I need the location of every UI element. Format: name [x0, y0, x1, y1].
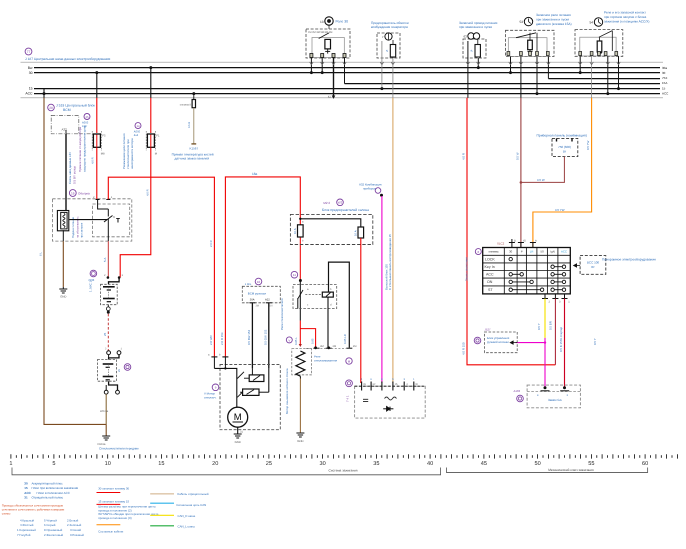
svg-text:0.5 BR: 0.5 BR: [549, 321, 553, 330]
svg-text:2M: 2M: [333, 345, 337, 348]
svg-text:25: 25: [85, 115, 89, 119]
topboxes: [43, 11, 650, 99]
svg-text:P: P: [521, 250, 523, 254]
wire R5 pin2 down: [591, 56, 593, 98]
svg-text:Связь шин данных LIN: Связь шин данных LIN: [68, 152, 72, 184]
wire F2 pin2 down: [392, 58, 394, 98]
coil rect 2: [243, 389, 259, 395]
node bus right labels: [662, 66, 669, 96]
svg-text:F1: F1: [156, 135, 160, 138]
wire bus L3 (75X): [548, 78, 660, 80]
wire bus L4 (15A): [345, 83, 661, 85]
relay J681 box: [506, 13, 572, 57]
wiper connector pins lower: [109, 381, 118, 390]
busbars: [21, 62, 664, 98]
T switch box: [93, 204, 130, 237]
svg-text:30: 30: [24, 482, 28, 486]
leftsection: [39, 68, 215, 451]
wire washer to ground brown: [299, 379, 301, 434]
svg-text:SLC2: SLC2: [497, 242, 505, 246]
wire frame top grey: [21, 61, 664, 63]
svg-text:0.85 L: 0.85 L: [294, 337, 298, 345]
BCM steering box: [242, 286, 280, 303]
legend sample red line 2: [97, 503, 121, 505]
J527 box: [484, 332, 517, 353]
svg-text:Key In: Key In: [485, 265, 495, 269]
svg-text:ACC: ACC: [25, 92, 33, 96]
wire bus L1 (30a): [34, 67, 660, 69]
svg-text:1 Коричневый: 1 Коричневый: [17, 528, 36, 532]
pins entering box: [96, 199, 100, 201]
svg-text:9 Розовый: 9 Розовый: [70, 533, 84, 537]
svg-text:5 Чёрный: 5 Чёрный: [44, 518, 57, 522]
svg-text:35: 35: [373, 461, 379, 467]
fuse 10A right: [358, 227, 364, 238]
svg-text:Механический ключ зажигания: Механический ключ зажигания: [548, 468, 594, 472]
pin row above pump: [314, 347, 353, 349]
fuse SB63 box: [459, 21, 498, 58]
wires BCM to motor: [251, 303, 253, 369]
svg-text:стеклоомывателя: стеклоомывателя: [314, 358, 337, 362]
wire red F1 feed: [96, 73, 98, 98]
svg-text:датчика замка панелей: датчика замка панелей: [175, 156, 210, 160]
wire red below F2 jog left: [120, 147, 151, 277]
node wiper conn ref: [124, 364, 131, 371]
svg-text:CAN_L шина: CAN_L шина: [178, 524, 196, 528]
svg-text:4x4: 4x4: [134, 134, 139, 137]
svg-text:5 A: 5 A: [103, 258, 107, 262]
svg-text:0.85 LR: 0.85 LR: [343, 334, 347, 344]
wire red 18a loop: [225, 177, 300, 357]
svg-text:30: 30: [29, 71, 33, 75]
svg-text:двигателя (клемма 15А): двигателя (клемма 15А): [536, 22, 572, 26]
svg-text:LR: LR: [530, 250, 534, 254]
wire tan long: [392, 98, 394, 383]
wire R5 pin3 to L6: [607, 56, 609, 93]
svg-text:54: 54: [589, 21, 593, 25]
legend sample red line 1: [97, 492, 121, 494]
svg-text:K1567: K1567: [189, 146, 198, 150]
relay wiper box: [293, 285, 337, 309]
relay contact diagonal: [298, 290, 303, 299]
svg-text:40: 40: [427, 461, 433, 467]
wire BCM output black: [65, 134, 67, 211]
svg-text:T: T: [116, 218, 120, 225]
svg-text:при запуске: при запуске: [80, 222, 84, 238]
wire heater ground: [62, 230, 64, 241]
connector battery symbol box: [101, 284, 118, 304]
svg-text:1N: 1N: [269, 305, 272, 308]
wire R1 pin3 down: [333, 58, 335, 97]
svg-text:Составные кабели: Составные кабели: [98, 530, 123, 534]
bracket ignition system: [12, 468, 441, 475]
generator internal symbols: [363, 399, 368, 401]
svg-text:45: 45: [481, 461, 487, 467]
pins above table: [509, 239, 536, 248]
svg-text:15A: 15A: [662, 81, 667, 85]
svg-text:20: 20: [212, 461, 218, 467]
svg-text:Замок зажигания: Замок зажигания: [465, 257, 469, 281]
wire F3 pin to L1: [477, 58, 479, 68]
node ignition ref: [475, 249, 481, 255]
svg-text:6 L: 6 L: [39, 252, 43, 256]
node ref circle: [69, 190, 76, 197]
contact arms: [237, 372, 244, 379]
svg-text:Bw: Bw: [28, 66, 33, 70]
legend: [2, 482, 209, 538]
header: [25, 48, 111, 61]
ignition lock box: [527, 385, 580, 408]
pins: [310, 54, 346, 58]
wire magenta to lock: [544, 338, 546, 388]
svg-text:53: 53: [519, 20, 523, 24]
svg-text:0.5 Y: 0.5 Y: [537, 323, 541, 330]
wire brown left E1: [43, 89, 45, 98]
wire red bold to lock: [564, 299, 566, 388]
node compressor ref: [90, 270, 97, 277]
node generator refs: [346, 358, 352, 364]
svg-text:Реле и его запасной контакт: Реле и его запасной контакт: [604, 11, 646, 15]
svg-text:сечением и сочетанием с ра: сечением и сочетанием с рабочими номерам…: [2, 508, 65, 512]
svg-text:0.5 W: 0.5 W: [515, 152, 519, 160]
wire bus L5 (15): [34, 88, 660, 90]
svg-text:A22: A22: [265, 298, 270, 301]
relay J680 box: [306, 17, 350, 58]
motor ground: [237, 427, 239, 434]
legend sample orange line: [97, 524, 121, 526]
svg-text:зажигания (к позициям ACC/X): зажигания (к позициям ACC/X): [604, 20, 649, 24]
zigzag washer coil: [292, 349, 312, 375]
svg-text:0.5 BY мотор: 0.5 BY мотор: [72, 166, 76, 184]
fuse 10A left: [298, 225, 304, 237]
svg-text:при зажигании и пуске: при зажигании и пуске: [536, 18, 569, 22]
wiper connector pins upper: [107, 351, 111, 355]
svg-text:BCC 100: BCC 100: [587, 261, 600, 265]
svg-text:И131а: И131а: [98, 443, 106, 446]
svg-text:рулевой колонки: рулевой колонки: [487, 340, 509, 344]
fuse F1: [93, 134, 100, 147]
svg-text:13: 13: [320, 20, 324, 24]
svg-text:GND: GND: [297, 439, 303, 443]
generator pins: [362, 382, 414, 391]
svg-text:IG: IG: [523, 240, 526, 243]
svg-text:V: V: [288, 338, 290, 342]
svg-text:J 519 Центральный блок: J 519 Центральный блок: [56, 104, 95, 108]
connector pair top pins: [107, 276, 110, 279]
svg-text:0.5 YW: 0.5 YW: [586, 140, 590, 150]
svg-text:Отрицательный полюс: Отрицательный полюс: [32, 496, 64, 500]
wire darkred to table: [520, 98, 522, 248]
svg-text:^: ^: [113, 215, 115, 220]
svg-text:2.0 R 154: 2.0 R 154: [220, 332, 224, 345]
row labels: [485, 257, 496, 292]
svg-text:провода в положение (9): провода в положение (9): [98, 516, 131, 520]
svg-text:7 Голубой: 7 Голубой: [17, 533, 31, 537]
svg-text:15: 15: [158, 461, 164, 467]
relay J682 box: [575, 11, 649, 57]
fuse SB24 box: [371, 21, 409, 58]
svg-text:0.5 GW 152: 0.5 GW 152: [263, 329, 267, 345]
svg-text:возбуждения генератора: возбуждения генератора: [371, 25, 408, 29]
motor interior: [214, 368, 236, 407]
svg-text:0.5 W: 0.5 W: [537, 178, 545, 182]
svg-text:60: 60: [642, 461, 648, 467]
svg-text:ACC: ACC: [24, 491, 31, 495]
wire red F2 feed: [150, 68, 152, 98]
wire magenta horizontal from J527: [516, 342, 545, 344]
svg-text:ST: ST: [488, 288, 493, 292]
svg-text:15: 15: [662, 86, 666, 90]
svg-text:4.0 R: 4.0 R: [91, 157, 95, 164]
svg-text:ATF1a: ATF1a: [100, 409, 109, 413]
wire red ignition feed: [467, 98, 555, 365]
svg-text:GND: GND: [60, 295, 66, 299]
ruler: [9, 454, 677, 475]
T switch contact: [104, 216, 113, 223]
wire F3 pin2 down: [467, 41, 469, 98]
svg-text:Аккумуляторный плюс: Аккумуляторный плюс: [32, 482, 64, 486]
svg-text:4.0 R: 4.0 R: [146, 189, 150, 196]
wire R5 pin1 to L2: [579, 56, 581, 72]
wire red through fuse to relay: [299, 225, 301, 237]
centersection: [204, 98, 425, 444]
svg-text:Блок предохранителей салона: Блок предохранителей салона: [322, 208, 369, 212]
svg-text:Плюс в положении ACC: Плюс в положении ACC: [37, 491, 71, 495]
svg-text:30a: 30a: [662, 66, 667, 70]
node junction dots on bus: [310, 71, 313, 74]
wire R4 pin3 to L6: [536, 57, 538, 94]
node fuse1 ref: [84, 114, 90, 120]
wire black in fusebox: [300, 219, 361, 227]
svg-text:20: 20: [49, 106, 53, 110]
svg-text:10: 10: [257, 280, 261, 284]
svg-text:0.5 BW 153: 0.5 BW 153: [247, 330, 251, 345]
wire R1 pin4 to L4 start: [344, 58, 346, 84]
wire red dashed down: [107, 314, 109, 351]
svg-text:1: 1: [9, 461, 12, 467]
node M ref magenta: [375, 188, 381, 194]
svg-text:стеклооч.: стеклооч.: [204, 395, 217, 399]
svg-text:ON: ON: [487, 280, 493, 284]
svg-text:8 Оранжевый: 8 Оранжевый: [44, 528, 63, 532]
svg-text:0.5 YW: 0.5 YW: [555, 208, 565, 212]
ignition switch table: [465, 239, 571, 304]
BCC box: [580, 256, 606, 275]
pins below table: [542, 294, 568, 299]
wire magenta: [381, 196, 383, 383]
wire R4 pin2 down: [520, 57, 522, 98]
wire R5 pin4 to L5: [618, 56, 620, 88]
rightsection: [462, 98, 657, 408]
fuse F2: [147, 134, 154, 147]
wire top chevron arrows: [310, 62, 621, 65]
svg-text:Кабель отрицательный: Кабель отрицательный: [178, 492, 209, 496]
relay coil rect: [322, 292, 333, 297]
svg-text:Обогрев: Обогрев: [78, 192, 90, 196]
svg-text:0.5 Y: 0.5 Y: [593, 338, 597, 345]
svg-text:B: B: [514, 240, 516, 243]
svg-text:30: 30: [319, 461, 325, 467]
svg-text:30: 30: [509, 250, 513, 254]
wire red T out down: [107, 241, 109, 277]
relay contact: [319, 33, 329, 39]
svg-text:C 2 Большая панель воспроизвед: C 2 Большая панель воспроизведения 25: [388, 234, 392, 290]
svg-text:Реле 30: Реле 30: [336, 20, 349, 24]
wire down to ground: [105, 394, 107, 424]
svg-text:2 Зелёный: 2 Зелёный: [67, 523, 82, 527]
wiper connector box: [98, 360, 117, 382]
svg-text:3M: 3M: [320, 345, 324, 348]
legend note orange: [2, 504, 65, 516]
svg-text:31: 31: [24, 496, 28, 500]
svg-text:10 A: 10 A: [293, 228, 297, 234]
svg-text:Плюс при включенном зажигании: Плюс при включенном зажигании: [32, 486, 79, 490]
relay inner frame: [312, 38, 344, 58]
svg-text:F5: F5: [102, 135, 106, 138]
wire R4 pin4 to L3 start: [547, 57, 549, 79]
legend middle column: [98, 487, 159, 534]
svg-text:750 (600): 750 (600): [558, 145, 571, 149]
wire 42 arrow end: [332, 96, 336, 99]
svg-text:S: S: [471, 49, 473, 53]
svg-text:GND: GND: [235, 440, 241, 444]
legend color codes: [17, 518, 84, 537]
wire yellow from table: [544, 299, 546, 338]
ground wiper: [102, 436, 110, 440]
svg-text:Панорамное электрооборудование: Панорамное электрооборудование: [602, 258, 656, 262]
legend right column: [150, 493, 174, 495]
wire frame bottom grey: [21, 97, 664, 99]
svg-text:Сигнальная цепь CAN: Сигнальная цепь CAN: [176, 503, 206, 507]
svg-text:A133: A133: [514, 389, 521, 393]
svg-text:4 Жёлтый: 4 Жёлтый: [20, 523, 34, 527]
pin below: [106, 307, 110, 311]
svg-text:30: 30: [662, 71, 666, 75]
wire crimson mid: [554, 299, 556, 365]
svg-text:30A: 30A: [250, 298, 255, 301]
svg-text:15: 15: [29, 87, 33, 91]
wire relay loop black: [329, 262, 350, 348]
svg-text:M8: M8: [101, 153, 105, 156]
svg-text:75X: 75X: [662, 76, 667, 80]
wire red branch to pin: [300, 329, 315, 347]
svg-text:50: 50: [534, 461, 540, 467]
svg-text:BCM рулевая: BCM рулевая: [248, 292, 267, 296]
wire R1 pin1 to L2: [310, 58, 312, 73]
wire bus L2 (30): [34, 72, 660, 74]
fuse element: [390, 45, 395, 58]
ground heater: [59, 287, 67, 293]
connector A32 box: [51, 115, 79, 133]
svg-text:14: 14: [136, 124, 140, 128]
node fuse2 ref: [135, 123, 141, 129]
red wire pins: [211, 356, 217, 358]
svg-text:11: 11: [293, 273, 296, 277]
table grid: [483, 248, 571, 294]
svg-text:5: 5: [52, 461, 55, 467]
svg-text:0.5 B 1569 стартер: 0.5 B 1569 стартер: [559, 326, 563, 352]
svg-text:4 Красный: 4 Красный: [20, 518, 34, 522]
svg-text:IgN: IgN: [550, 250, 554, 254]
wire R4 pin1 to L2: [510, 57, 512, 73]
svg-text:0.5 B: 0.5 B: [188, 122, 191, 128]
svg-text:10: 10: [105, 461, 111, 467]
bracket mechanical key: [447, 468, 648, 473]
svg-text:18a: 18a: [252, 172, 258, 176]
wire red below F1: [96, 147, 98, 199]
generator box: [355, 386, 426, 418]
legend terminal list: [24, 482, 78, 500]
svg-text:Стеклоочистители передние: Стеклоочистители передние: [99, 447, 139, 451]
svg-text:защищено предохранителем цепи: защищено предохранителем цепи: [82, 126, 86, 172]
ground washer: [296, 433, 304, 437]
wire bus L6 (ACC): [34, 93, 660, 95]
motor box: [220, 365, 280, 430]
svg-text:30 означает клемму 30: 30 означает клемму 30: [98, 487, 129, 491]
motor M: [228, 407, 248, 427]
svg-text:ACC: ACC: [561, 250, 567, 254]
svg-text:15: 15: [24, 486, 28, 490]
svg-text:Запасное реле питания: Запасное реле питания: [536, 13, 571, 17]
links: [259, 391, 269, 393]
heater element: [57, 211, 68, 231]
svg-text:15 означает клемму 15: 15 означает клемму 15: [98, 500, 129, 504]
svg-text:4.0 R 150: 4.0 R 150: [462, 342, 466, 355]
wire heater to T switch: [69, 219, 107, 221]
svg-text:клемма: клемма: [489, 250, 499, 254]
relay coil: [325, 39, 331, 49]
svg-text:при зажигании и пуске: при зажигании и пуске: [459, 25, 492, 29]
svg-text:клемма 8: клемма 8: [180, 103, 192, 106]
svg-text:6 Серый: 6 Серый: [44, 523, 56, 527]
svg-text:77: 77: [27, 50, 31, 54]
svg-text:ACC: ACC: [662, 91, 669, 95]
wire resistor to darkred junction: [521, 157, 565, 183]
wires from top boxes to bus: [311, 41, 618, 98]
svg-text:2.0 WR: 2.0 WR: [209, 335, 213, 345]
coil rect 1: [249, 375, 264, 382]
svg-text:BCM: BCM: [63, 108, 71, 112]
svg-text:при горячем запуске с блока: при горячем запуске с блока: [604, 15, 646, 19]
node fusebox ref: [337, 199, 344, 206]
svg-text:приборов: приборов: [363, 186, 376, 190]
svg-text:J527: J527: [485, 328, 492, 332]
svg-text:Приборная панель (комбинация): Приборная панель (комбинация): [537, 134, 587, 138]
svg-text:25: 25: [103, 332, 107, 336]
node relay ref 11: [291, 271, 298, 278]
svg-text:неисправности мотора: неисправности мотора: [130, 138, 134, 169]
thermal block outer box: [52, 199, 131, 241]
svg-text:4.0 R: 4.0 R: [462, 153, 466, 160]
contact circles: [509, 257, 566, 291]
svg-text:25: 25: [266, 461, 272, 467]
wire red horizontal to motor: [108, 177, 214, 357]
wire F2 pin to L5: [381, 41, 383, 89]
svg-text:CAN_H шина: CAN_H шина: [178, 514, 196, 518]
wire red from fuse right down: [360, 238, 362, 383]
svg-text:0.85: 0.85: [311, 338, 315, 344]
svg-text:10 A: 10 A: [353, 230, 357, 236]
node J519 ref: [48, 104, 55, 111]
svg-text:схемы: схемы: [2, 512, 11, 516]
svg-text:A: A: [535, 240, 537, 243]
svg-text:LOCK: LOCK: [485, 257, 495, 261]
svg-text:W2: W2: [338, 201, 343, 205]
node motor ref: [212, 384, 219, 391]
ruler ticks: [11, 454, 678, 458]
wire orange routing: [533, 98, 592, 248]
svg-text:ACC: ACC: [486, 273, 494, 277]
